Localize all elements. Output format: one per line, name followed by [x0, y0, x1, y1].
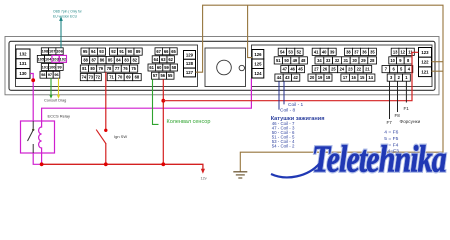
- svg-text:107: 107: [49, 49, 56, 54]
- svg-text:46: 46: [290, 67, 295, 72]
- svg-text:29: 29: [361, 58, 366, 63]
- svg-text:51: 51: [276, 58, 281, 63]
- svg-text:74: 74: [82, 75, 87, 80]
- svg-text:125: 125: [254, 61, 262, 66]
- svg-text:34: 34: [317, 58, 322, 63]
- svg-text:44: 44: [277, 75, 282, 80]
- svg-text:91: 91: [119, 49, 124, 54]
- svg-text:39: 39: [330, 49, 335, 54]
- svg-text:41: 41: [314, 49, 319, 54]
- svg-text:126: 126: [254, 52, 262, 57]
- svg-text:24: 24: [340, 67, 345, 72]
- svg-text:89: 89: [136, 49, 141, 54]
- svg-text:60: 60: [157, 65, 162, 70]
- svg-text:12: 12: [401, 49, 406, 54]
- svg-text:95: 95: [83, 49, 88, 54]
- svg-text:59: 59: [164, 65, 169, 70]
- svg-text:69: 69: [126, 75, 131, 80]
- svg-text:128: 128: [186, 61, 194, 66]
- svg-text:50: 50: [284, 58, 289, 63]
- svg-text:47: 47: [283, 67, 288, 72]
- svg-text:30: 30: [352, 58, 357, 63]
- svg-text:84: 84: [116, 58, 121, 63]
- svg-text:82: 82: [133, 58, 138, 63]
- svg-text:18: 18: [326, 75, 331, 80]
- svg-text:124: 124: [254, 71, 262, 76]
- svg-text:OBD 7pin ( Only for: OBD 7pin ( Only for: [53, 10, 83, 14]
- svg-text:122: 122: [421, 60, 429, 65]
- svg-text:65: 65: [171, 49, 176, 54]
- svg-text:16: 16: [351, 75, 356, 80]
- svg-text:20: 20: [310, 75, 315, 80]
- svg-text:4 = F6: 4 = F6: [384, 130, 398, 136]
- svg-text:83: 83: [124, 58, 129, 63]
- svg-text:97: 97: [48, 72, 52, 77]
- svg-text:131: 131: [19, 61, 27, 66]
- svg-text:108: 108: [42, 49, 49, 54]
- svg-text:85: 85: [108, 58, 113, 63]
- svg-text:56: 56: [161, 73, 166, 78]
- svg-text:27: 27: [314, 67, 319, 72]
- svg-text:90: 90: [128, 49, 133, 54]
- svg-text:19: 19: [318, 75, 323, 80]
- svg-text:F7: F7: [387, 120, 393, 125]
- svg-text:Ign SW: Ign SW: [114, 134, 127, 139]
- svg-text:78: 78: [107, 66, 112, 71]
- svg-text:40: 40: [322, 49, 327, 54]
- svg-text:53: 53: [288, 49, 293, 54]
- svg-text:104: 104: [45, 56, 52, 61]
- svg-text:ECCS Relay: ECCS Relay: [48, 114, 70, 119]
- svg-text:86: 86: [100, 58, 105, 63]
- svg-text:38: 38: [346, 49, 351, 54]
- svg-text:36: 36: [362, 49, 367, 54]
- svg-text:22: 22: [357, 67, 362, 72]
- svg-text:129: 129: [186, 52, 194, 57]
- svg-text:105: 105: [38, 56, 45, 61]
- svg-text:61: 61: [149, 65, 154, 70]
- svg-text:43: 43: [285, 75, 290, 80]
- svg-text:132: 132: [19, 51, 27, 56]
- svg-text:EU version ECU: EU version ECU: [53, 14, 78, 18]
- svg-text:130: 130: [19, 71, 27, 76]
- svg-text:Coil - 1: Coil - 1: [288, 102, 304, 108]
- svg-text:77: 77: [115, 66, 120, 71]
- svg-text:54: 54: [280, 49, 285, 54]
- svg-text:42: 42: [293, 75, 298, 80]
- svg-text:92: 92: [111, 49, 116, 54]
- svg-text:55: 55: [168, 73, 173, 78]
- svg-text:81: 81: [82, 66, 87, 71]
- svg-text:88: 88: [83, 58, 88, 63]
- svg-text:106: 106: [56, 49, 63, 54]
- svg-text:32: 32: [335, 58, 340, 63]
- svg-text:Форсунки: Форсунки: [400, 119, 421, 124]
- svg-text:100: 100: [49, 64, 56, 69]
- svg-text:12v: 12v: [201, 177, 207, 181]
- svg-text:80: 80: [90, 66, 95, 71]
- svg-text:17: 17: [343, 75, 348, 80]
- svg-text:101: 101: [42, 64, 49, 69]
- svg-text:76: 76: [123, 66, 128, 71]
- svg-text:35: 35: [370, 49, 375, 54]
- svg-text:45: 45: [298, 67, 303, 72]
- svg-text:103: 103: [52, 56, 59, 61]
- svg-text:79: 79: [99, 66, 104, 71]
- svg-text:21: 21: [365, 67, 370, 72]
- svg-text:28: 28: [370, 58, 375, 63]
- svg-text:31: 31: [344, 58, 349, 63]
- svg-text:87: 87: [92, 58, 97, 63]
- svg-text:62: 62: [168, 57, 173, 62]
- svg-text:73: 73: [89, 75, 94, 80]
- svg-text:Teletehnika: Teletehnika: [312, 138, 447, 180]
- svg-text:72: 72: [96, 75, 101, 80]
- svg-text:23: 23: [348, 67, 353, 72]
- svg-text:63: 63: [161, 57, 166, 62]
- svg-text:F1: F1: [404, 106, 410, 111]
- svg-text:68: 68: [135, 75, 140, 80]
- svg-text:F8: F8: [395, 113, 401, 118]
- svg-text:70: 70: [118, 75, 123, 80]
- svg-text:Consult Diag: Consult Diag: [44, 97, 66, 102]
- svg-text:54 - Coil - 2: 54 - Coil - 2: [272, 143, 295, 148]
- svg-text:48: 48: [301, 58, 306, 63]
- svg-text:25: 25: [331, 67, 336, 72]
- svg-text:93: 93: [99, 49, 104, 54]
- svg-text:33: 33: [326, 58, 331, 63]
- svg-text:94: 94: [91, 49, 96, 54]
- svg-text:13: 13: [393, 49, 398, 54]
- svg-text:49: 49: [293, 58, 298, 63]
- svg-text:123: 123: [421, 50, 429, 55]
- svg-text:52: 52: [297, 49, 302, 54]
- svg-text:37: 37: [354, 49, 359, 54]
- svg-text:67: 67: [156, 49, 161, 54]
- svg-text:64: 64: [154, 57, 159, 62]
- svg-text:Коленвал сенсор: Коленвал сенсор: [167, 119, 211, 125]
- svg-text:127: 127: [186, 70, 194, 75]
- svg-text:26: 26: [323, 67, 328, 72]
- svg-text:14: 14: [368, 75, 373, 80]
- svg-text:66: 66: [164, 49, 169, 54]
- svg-text:57: 57: [153, 73, 158, 78]
- svg-text:121: 121: [421, 69, 429, 74]
- svg-text:15: 15: [360, 75, 365, 80]
- svg-text:10: 10: [390, 58, 395, 63]
- svg-text:71: 71: [109, 75, 114, 80]
- svg-text:4=F3: 4=F3: [388, 149, 400, 155]
- svg-text:102: 102: [60, 56, 67, 61]
- svg-text:Coil - 8: Coil - 8: [280, 108, 296, 114]
- svg-text:75: 75: [131, 66, 136, 71]
- svg-text:58: 58: [172, 65, 177, 70]
